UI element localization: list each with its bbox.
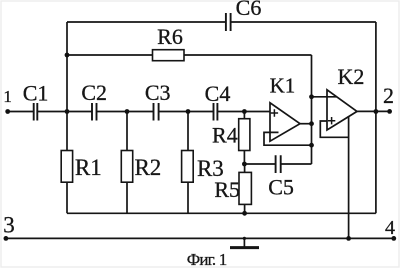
svg-text:R4: R4 — [212, 123, 238, 148]
svg-text:3: 3 — [3, 213, 15, 238]
svg-text:2: 2 — [383, 83, 394, 108]
svg-text:4: 4 — [385, 217, 395, 239]
svg-text:K2: K2 — [338, 64, 365, 89]
svg-text:C4: C4 — [205, 81, 231, 106]
svg-text:C2: C2 — [81, 80, 107, 105]
svg-text:K1: K1 — [270, 74, 296, 98]
svg-text:R2: R2 — [134, 155, 161, 180]
svg-text:R1: R1 — [75, 155, 102, 180]
svg-text:R6: R6 — [157, 24, 183, 49]
svg-text:Фиг. 1: Фиг. 1 — [187, 250, 227, 268]
svg-text:C6: C6 — [236, 0, 262, 20]
svg-text:C1: C1 — [23, 80, 49, 105]
svg-text:C5: C5 — [268, 175, 294, 200]
svg-text:C3: C3 — [145, 80, 171, 105]
svg-text:1: 1 — [3, 87, 12, 106]
svg-text:R5: R5 — [214, 177, 240, 202]
